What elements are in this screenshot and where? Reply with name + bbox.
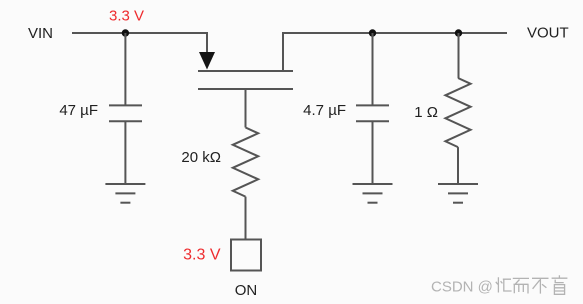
svg-text:47 µF: 47 µF [59, 102, 98, 119]
wire drain corner to VOUT [283, 33, 507, 71]
source arrow [199, 52, 215, 70]
不 [532, 278, 549, 293]
watermark CSDN [431, 279, 493, 296]
ON terminal box [231, 240, 261, 271]
capacitor C1 47uF [59, 33, 142, 184]
channel bar [198, 70, 293, 72]
wire bottom plate to ground [124, 121, 126, 184]
ground (C1) [105, 184, 145, 203]
ground (R2) [438, 184, 478, 203]
盲 [552, 275, 568, 294]
svg-text:3.3 V: 3.3 V [109, 8, 144, 25]
wire VIN to transistor source corner [72, 33, 207, 53]
wire node to top plate [124, 33, 126, 105]
wire gate to resistor [245, 89, 247, 128]
gate bar [198, 88, 293, 90]
svg-text:ON: ON [235, 282, 258, 299]
svg-text:1 Ω: 1 Ω [414, 104, 438, 121]
junction dot 1ohm node [455, 29, 462, 36]
svg-text:3.3 V: 3.3 V [183, 247, 221, 264]
svg-text:20 kΩ: 20 kΩ [181, 149, 221, 166]
resistor R1 20 kOhm [181, 128, 258, 197]
svg-text:CSDN @: CSDN @ [431, 279, 493, 296]
svg-text:4.7 µF: 4.7 µF [303, 102, 346, 119]
svg-text:VIN: VIN [28, 25, 53, 42]
junction dot 4.7uF node [369, 29, 376, 36]
而 [513, 278, 529, 293]
wire resistor to ON box [245, 197, 247, 240]
capacitor C2 4.7uF [303, 33, 389, 184]
transistor Q1 (PMOS pass FET) [198, 52, 293, 89]
忙 [496, 277, 512, 292]
junction dot VIN node [122, 29, 129, 36]
resistor R2 1 Ohm [414, 33, 470, 184]
watermark CJK glyphs (hand drawn) [496, 275, 568, 294]
svg-text:VOUT: VOUT [527, 25, 569, 42]
ground (C2) [353, 184, 393, 203]
